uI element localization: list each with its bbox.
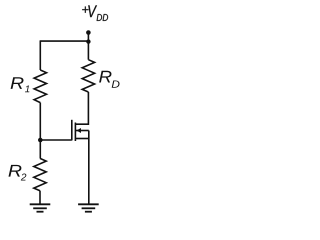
wire: gate lead from divider node to gate plate bbox=[40, 139, 72, 141]
wire: VDD junction down to RD bbox=[87, 42, 89, 60]
node dot: +VDD terminal bbox=[86, 30, 91, 35]
node dot: gate junction on divider bbox=[38, 138, 43, 143]
resistor R2 bbox=[34, 158, 46, 190]
label: RD bbox=[99, 71, 119, 88]
label: +VDD supply bbox=[82, 5, 108, 21]
label: R2 bbox=[9, 165, 27, 181]
transistor M1 body stub bbox=[76, 130, 89, 132]
transistor M1 source stub bbox=[75, 138, 88, 140]
label: R1 bbox=[11, 77, 30, 92]
ground (right) bbox=[78, 204, 99, 211]
node dot: junction of top wire and RD branch bbox=[86, 39, 90, 43]
wire: body tie down to source stub bbox=[88, 131, 90, 139]
transistor M1 channel bar bbox=[74, 123, 76, 142]
wire: left rail from R1 to R2 through gate node bbox=[39, 103, 41, 159]
resistor RD bbox=[82, 60, 94, 92]
ground (left) bbox=[30, 204, 51, 211]
resistor R1 bbox=[34, 70, 46, 103]
transistor M1 gate plate bbox=[71, 120, 73, 141]
wire: top horizontal from left rail to VDD junction bbox=[40, 40, 88, 42]
transistor M1 body arrowhead bbox=[76, 128, 81, 133]
wire: source down to ground bbox=[88, 139, 90, 205]
wire: VDD terminal stub down to junction bbox=[87, 33, 89, 42]
wire: left rail from top wire down to R1 bbox=[39, 40, 41, 70]
wire: R2 lead down to ground bbox=[39, 191, 41, 205]
wire: RD down to drain stub of M1 bbox=[75, 92, 88, 124]
